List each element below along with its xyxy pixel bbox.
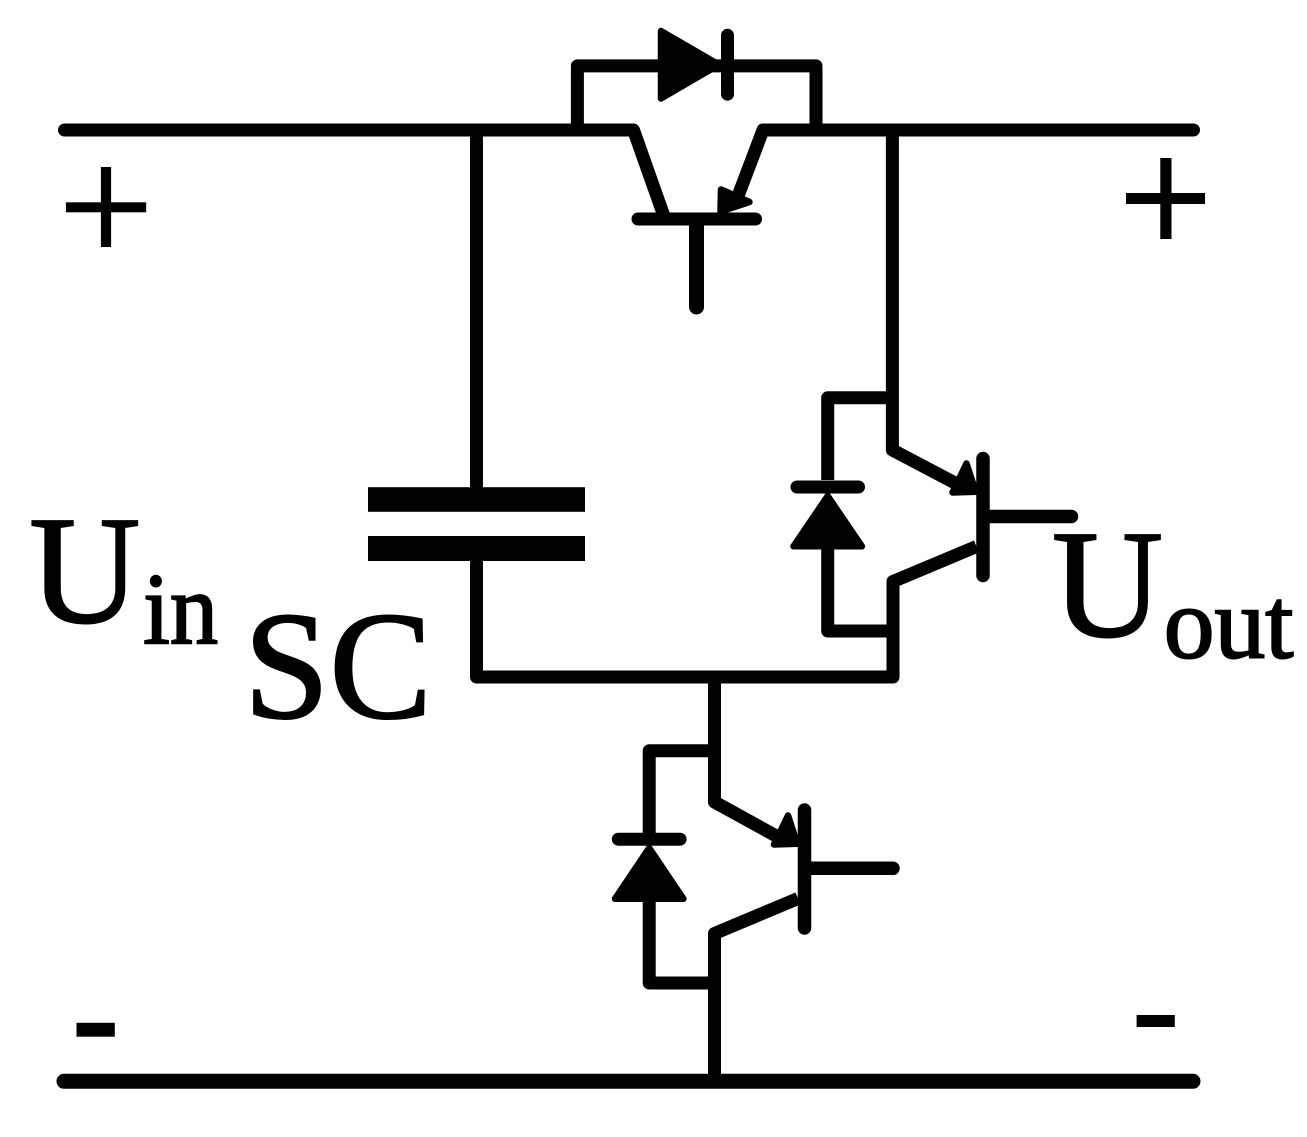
svg-text:U: U: [1052, 500, 1163, 670]
svg-text:out: out: [1164, 568, 1294, 680]
svg-text:SC: SC: [244, 582, 432, 752]
svg-text:U: U: [29, 486, 140, 656]
svg-text:in: in: [143, 553, 218, 665]
